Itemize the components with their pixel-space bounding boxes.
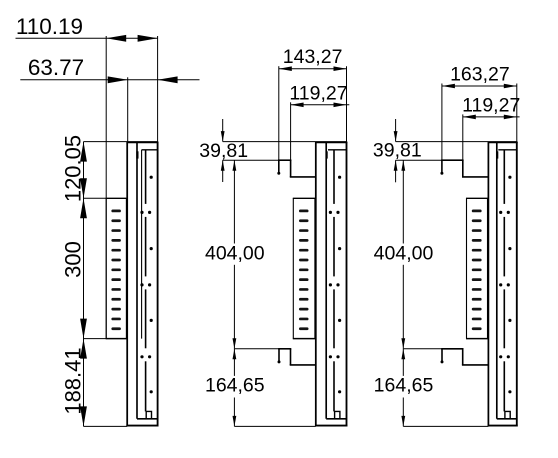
arrow up at 141.6: [80, 142, 87, 162]
middle view: cap line: [328, 149, 347, 151]
right top bracket: [396, 159, 442, 161]
left dimension chain line: [83, 142, 85, 427]
middle view: vent slot box: [292, 198, 294, 338]
arrow down at 198.3: [80, 178, 87, 198]
extension right face mid: [346, 66, 348, 141]
ext line at 338.6: [84, 338, 107, 340]
svg-text:119,27: 119,27: [289, 82, 347, 104]
right view: cap line: [498, 149, 517, 151]
svg-text:110.19: 110.19: [16, 14, 83, 39]
ext line at 198.3: [84, 197, 107, 199]
left view: bottom flange: [137, 418, 158, 420]
middle view: bottom edge: [315, 425, 347, 427]
arrow down at 338.6: [80, 319, 87, 339]
extension x=278.8: [278, 66, 280, 160]
svg-text:119,27: 119,27: [462, 94, 520, 116]
middle view: top edge: [315, 141, 347, 143]
right view: liner: [496, 142, 498, 418]
extension line right face: [157, 36, 159, 142]
middle view: top reference line: [223, 141, 347, 143]
middle view: foot pedestal: [335, 411, 340, 418]
left view: outer wall: [126, 142, 128, 426]
left view: vent slot box: [105, 198, 107, 338]
svg-text:63.77: 63.77: [28, 55, 84, 80]
arrow up at 338.6: [80, 339, 87, 359]
dimension 39,81 right: [395, 119, 397, 142]
extension line x=127.7: [127, 77, 129, 141]
right view: top reference line: [396, 141, 517, 143]
middle view: weld notch: [326, 151, 328, 158]
extension line x=106.2: [105, 36, 107, 339]
dimension 163,27: [442, 85, 517, 87]
left view: top reference line: [84, 141, 158, 143]
svg-text:39,81: 39,81: [373, 140, 422, 162]
middle view: center segmented line: [333, 150, 335, 204]
dimension 119,27 middle: [291, 104, 350, 106]
left view: right edge: [157, 142, 159, 427]
dimension chain 404,00 / 164,65 right: [401, 160, 405, 171]
right bottom ext line: [403, 425, 488, 427]
right view: vent slats: [472, 210, 482, 213]
right view: right edge: [516, 142, 518, 427]
bottom ext line: [84, 425, 128, 427]
left view: weld notch: [136, 151, 138, 158]
extension x=290.6: [290, 102, 292, 160]
middle view: liner: [325, 142, 327, 418]
left view: liner: [136, 142, 138, 418]
left view: vent slats: [111, 210, 121, 213]
middle bottom bracket: [234, 348, 279, 350]
svg-text:164,65: 164,65: [374, 374, 434, 396]
left view: cap line: [142, 149, 158, 151]
right view: center segmented line: [503, 150, 505, 204]
right view: bottom edge: [488, 425, 518, 427]
left view: top edge: [126, 141, 158, 143]
middle view: bottom flange: [326, 418, 346, 420]
left view: foot pedestal: [146, 411, 151, 418]
right bottom bracket: [403, 348, 442, 350]
svg-text:120.05: 120.05: [60, 135, 85, 202]
svg-text:164,65: 164,65: [205, 374, 265, 396]
middle bottom ext line: [234, 425, 315, 427]
svg-text:143,27: 143,27: [283, 46, 343, 68]
svg-text:39,81: 39,81: [199, 140, 248, 162]
right view: top edge: [488, 141, 518, 143]
dimension 143,27: [279, 68, 347, 70]
dimension 63.77: [20, 79, 199, 81]
svg-text:404,00: 404,00: [374, 242, 434, 264]
right view: vent slot box: [466, 198, 468, 338]
middle view: right edge: [346, 142, 348, 427]
right view: outer wall: [487, 142, 489, 426]
right view: bottom flange: [497, 418, 517, 420]
extension x=441.9: [441, 84, 443, 161]
right view: foot pedestal: [505, 411, 510, 418]
middle view: rivet holes: [338, 176, 341, 179]
svg-text:163,27: 163,27: [450, 64, 510, 86]
svg-text:404,00: 404,00: [205, 242, 265, 264]
middle top bracket: [223, 159, 279, 161]
left view: inner baffle line: [141, 150, 143, 339]
left view: bottom edge: [126, 425, 158, 427]
dimension 119,27 right: [463, 116, 520, 118]
right view: weld notch: [496, 151, 498, 158]
dimension 39,81 middle: [222, 119, 224, 142]
middle view: vent slats: [299, 210, 309, 213]
right view: rivet holes: [508, 176, 511, 179]
arrow down at 426.4: [80, 406, 87, 426]
middle view: outer wall: [315, 142, 317, 426]
extension x=462.8: [462, 114, 464, 160]
extension right face right view: [516, 84, 518, 142]
arrow up at 198.3: [80, 198, 87, 218]
dimension 110.19: [16, 37, 158, 39]
svg-text:188.41: 188.41: [60, 347, 85, 414]
svg-text:300: 300: [60, 241, 85, 278]
left view: rivet holes: [150, 176, 153, 179]
left view: center segmented line: [145, 150, 147, 204]
dimension chain 404,00 / 164,65 middle: [233, 160, 237, 171]
